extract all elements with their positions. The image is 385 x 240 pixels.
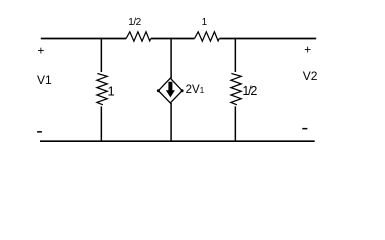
wire top junction down to R4 xyxy=(234,38,236,72)
wire R3 bottom stub xyxy=(100,106,102,141)
svg-text:1/2: 1/2 xyxy=(128,17,141,28)
port 1 minus terminal xyxy=(37,131,42,133)
svg-text:V2: V2 xyxy=(303,69,318,83)
svg-text:1: 1 xyxy=(202,17,208,28)
terminal dot left of source xyxy=(157,89,160,92)
resistor R4 value 1/2 (right shunt, vertical) xyxy=(231,74,241,105)
wire top rail left segment xyxy=(41,38,126,40)
resistor R1 value 1/2 (top left, horizontal) xyxy=(126,32,151,41)
terminal dot right of source xyxy=(181,89,184,92)
arrow inside source pointing down xyxy=(166,82,175,98)
svg-text:1: 1 xyxy=(108,83,115,98)
wire dependent source bottom stub xyxy=(170,103,172,141)
svg-text:+: + xyxy=(304,43,311,57)
resistor R3 value 1 (left shunt, vertical) xyxy=(97,74,107,105)
resistor R2 value 1 (top right, horizontal) xyxy=(195,32,220,41)
wire top rail middle segment xyxy=(151,38,195,40)
dependent current source U1 diamond xyxy=(158,78,182,103)
svg-text:V1: V1 xyxy=(37,73,52,87)
port 2 minus terminal xyxy=(302,128,307,129)
svg-text:+: + xyxy=(37,44,44,58)
svg-text:1: 1 xyxy=(200,86,205,95)
svg-text:1/2: 1/2 xyxy=(242,84,257,98)
wire R4 bottom stub xyxy=(234,106,236,141)
wire dependent source top stub xyxy=(170,38,172,79)
node A top junction wire down to R3 xyxy=(100,38,102,72)
svg-text:2V: 2V xyxy=(186,84,200,96)
wire bottom rail xyxy=(40,140,315,142)
wire top rail right segment xyxy=(219,38,316,40)
